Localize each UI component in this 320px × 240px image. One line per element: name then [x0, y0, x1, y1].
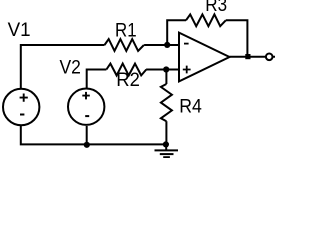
wire bottom rail	[21, 126, 166, 144]
wire V2 bottom	[86, 126, 88, 144]
wire node to R4	[165, 70, 167, 85]
V1 minus sign	[20, 114, 24, 116]
svg-text:R1: R1	[115, 20, 137, 42]
resistor R1	[105, 39, 144, 51]
junction node at inverting input	[164, 42, 170, 48]
op-amp U1	[179, 33, 230, 82]
V1 plus sign	[20, 94, 28, 102]
op-amp plus pin label	[183, 66, 191, 74]
svg-text:R3: R3	[205, 0, 227, 16]
wire R1 to op-amp inverting input	[144, 44, 179, 46]
output terminal	[266, 54, 273, 61]
voltage source V1	[3, 89, 39, 125]
wire V2 top to R2	[87, 70, 107, 89]
svg-text:R4: R4	[179, 95, 202, 117]
svg-text:V1: V1	[8, 19, 31, 41]
voltage source V2	[68, 89, 104, 125]
ground	[165, 144, 167, 150]
resistor R3	[186, 14, 226, 26]
svg-text:V2: V2	[60, 57, 81, 79]
wire feedback left vertical	[167, 20, 186, 45]
junction node at non-inverting input	[163, 66, 169, 72]
wire V1 top to R1	[21, 45, 105, 88]
op-amp minus pin label	[184, 43, 189, 45]
V2 minus sign	[85, 115, 89, 117]
wire feedback right vertical	[226, 20, 248, 57]
resistor R4	[161, 84, 172, 121]
wire R4 to ground rail	[165, 121, 167, 144]
V2 plus sign	[82, 92, 90, 100]
resistor R2	[106, 64, 146, 76]
junction node at output	[245, 54, 250, 59]
wire R2 to op-amp non-inverting input	[146, 69, 179, 71]
wire op-amp output	[230, 56, 276, 58]
junction node V2 bottom	[84, 142, 90, 148]
junction node at ground	[163, 141, 169, 147]
